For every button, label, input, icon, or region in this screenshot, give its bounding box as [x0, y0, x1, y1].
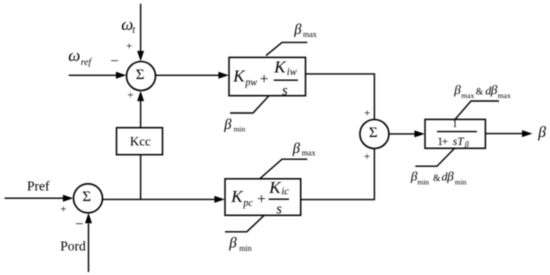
- limit lines lag block bottom (beta min & d beta min): [415, 148, 454, 166]
- svg-text:+: +: [126, 40, 132, 52]
- limit lines Kpc block bottom (beta min): [225, 216, 264, 232]
- svg-text:Σ: Σ: [369, 125, 378, 141]
- arrowhead Pord up into lower sum: [85, 213, 92, 223]
- svg-text:1: 1: [452, 119, 457, 130]
- svg-text:Σ: Σ: [82, 189, 91, 205]
- arrowhead into Kpw block: [218, 72, 228, 79]
- svg-text:max: max: [303, 30, 317, 39]
- svg-text:β: β: [293, 22, 302, 38]
- svg-text:min: min: [239, 244, 251, 253]
- wire right sum to lag block: [389, 133, 416, 135]
- svg-text:pc: pc: [242, 198, 253, 209]
- svg-text:K: K: [230, 187, 244, 206]
- svg-text:&: &: [476, 87, 484, 97]
- svg-text:β: β: [446, 168, 454, 183]
- wire lower sum to Kpc block: [103, 198, 216, 200]
- svg-text:β: β: [464, 140, 469, 149]
- summing junction lower: [74, 184, 103, 213]
- svg-text:Pord: Pord: [60, 239, 86, 254]
- svg-text:−: −: [75, 216, 83, 232]
- arrowhead Kcc up into upper sum: [137, 91, 144, 101]
- wire omega_t vertical input: [140, 4, 142, 52]
- svg-text:&: &: [433, 174, 441, 184]
- block 1/(1+sTb): [425, 119, 485, 148]
- svg-text:β: β: [453, 82, 461, 97]
- arrowhead into Kpc block: [214, 196, 224, 203]
- svg-text:Σ: Σ: [136, 67, 145, 83]
- svg-text:sT: sT: [453, 136, 465, 148]
- wire Pref input: [5, 197, 65, 199]
- svg-text:K: K: [232, 66, 246, 85]
- svg-text:iw: iw: [287, 67, 297, 78]
- wire Kcc output up to upper sum: [140, 101, 142, 128]
- block Kpw + Kiw/s: [229, 57, 306, 95]
- svg-text:ref: ref: [81, 57, 93, 68]
- wire Pord vertical input: [88, 224, 90, 273]
- arrowhead into lag block: [414, 130, 424, 137]
- wire Kpc block output to right sum bottom: [301, 148, 375, 199]
- arrowhead output beta: [522, 130, 532, 137]
- svg-text:β: β: [223, 117, 232, 133]
- svg-text:+: +: [364, 151, 370, 163]
- svg-text:min: min: [234, 125, 246, 134]
- svg-text:min: min: [455, 178, 467, 187]
- svg-text:min: min: [417, 178, 429, 187]
- wire lag block output: [485, 133, 523, 135]
- svg-text:s: s: [276, 202, 282, 218]
- limit lines Kpw block bottom (beta min): [230, 96, 269, 113]
- svg-text:Kcc: Kcc: [130, 134, 151, 149]
- svg-text:ic: ic: [281, 186, 289, 197]
- svg-text:+: +: [442, 136, 449, 148]
- arrowhead omega_ref into upper sum: [116, 72, 126, 79]
- svg-text:Pref: Pref: [27, 179, 50, 194]
- svg-text:pw: pw: [244, 78, 257, 89]
- svg-text:β: β: [537, 124, 546, 141]
- block Kpc + Kic/s: [225, 179, 301, 216]
- summing junction upper: [127, 62, 156, 91]
- block Kcc: [117, 128, 163, 155]
- summing junction right: [360, 120, 389, 149]
- limit lines lag block top (beta max & d beta max): [455, 101, 499, 119]
- svg-text:K: K: [268, 178, 282, 197]
- svg-text:β: β: [292, 141, 301, 157]
- svg-text:+: +: [60, 203, 66, 215]
- arrowhead Pref into lower sum: [63, 195, 73, 202]
- svg-text:−: −: [110, 53, 118, 69]
- wire upper sum to Kpw block: [156, 74, 220, 76]
- svg-text:+: +: [257, 191, 266, 208]
- limit lines Kpw block top (beta max): [266, 42, 307, 55]
- svg-text:max: max: [302, 148, 316, 157]
- wire tap from lower path up into Kcc: [140, 155, 142, 200]
- svg-text:+: +: [127, 90, 133, 102]
- svg-text:K: K: [273, 58, 287, 77]
- arrowhead omega_t into upper sum: [137, 51, 144, 61]
- wire omega_ref horizontal input: [69, 74, 117, 76]
- limit lines Kpc block top (beta max): [260, 159, 307, 178]
- svg-text:s: s: [282, 83, 288, 99]
- svg-text:β: β: [228, 236, 237, 252]
- svg-text:+: +: [364, 107, 370, 119]
- svg-text:ω: ω: [68, 46, 80, 65]
- svg-text:+: +: [260, 71, 269, 88]
- wire Kpw block output to right sum top: [306, 74, 375, 120]
- svg-text:β: β: [490, 82, 498, 97]
- svg-text:max: max: [461, 91, 474, 100]
- svg-text:max: max: [498, 91, 511, 100]
- svg-text:t: t: [132, 25, 135, 36]
